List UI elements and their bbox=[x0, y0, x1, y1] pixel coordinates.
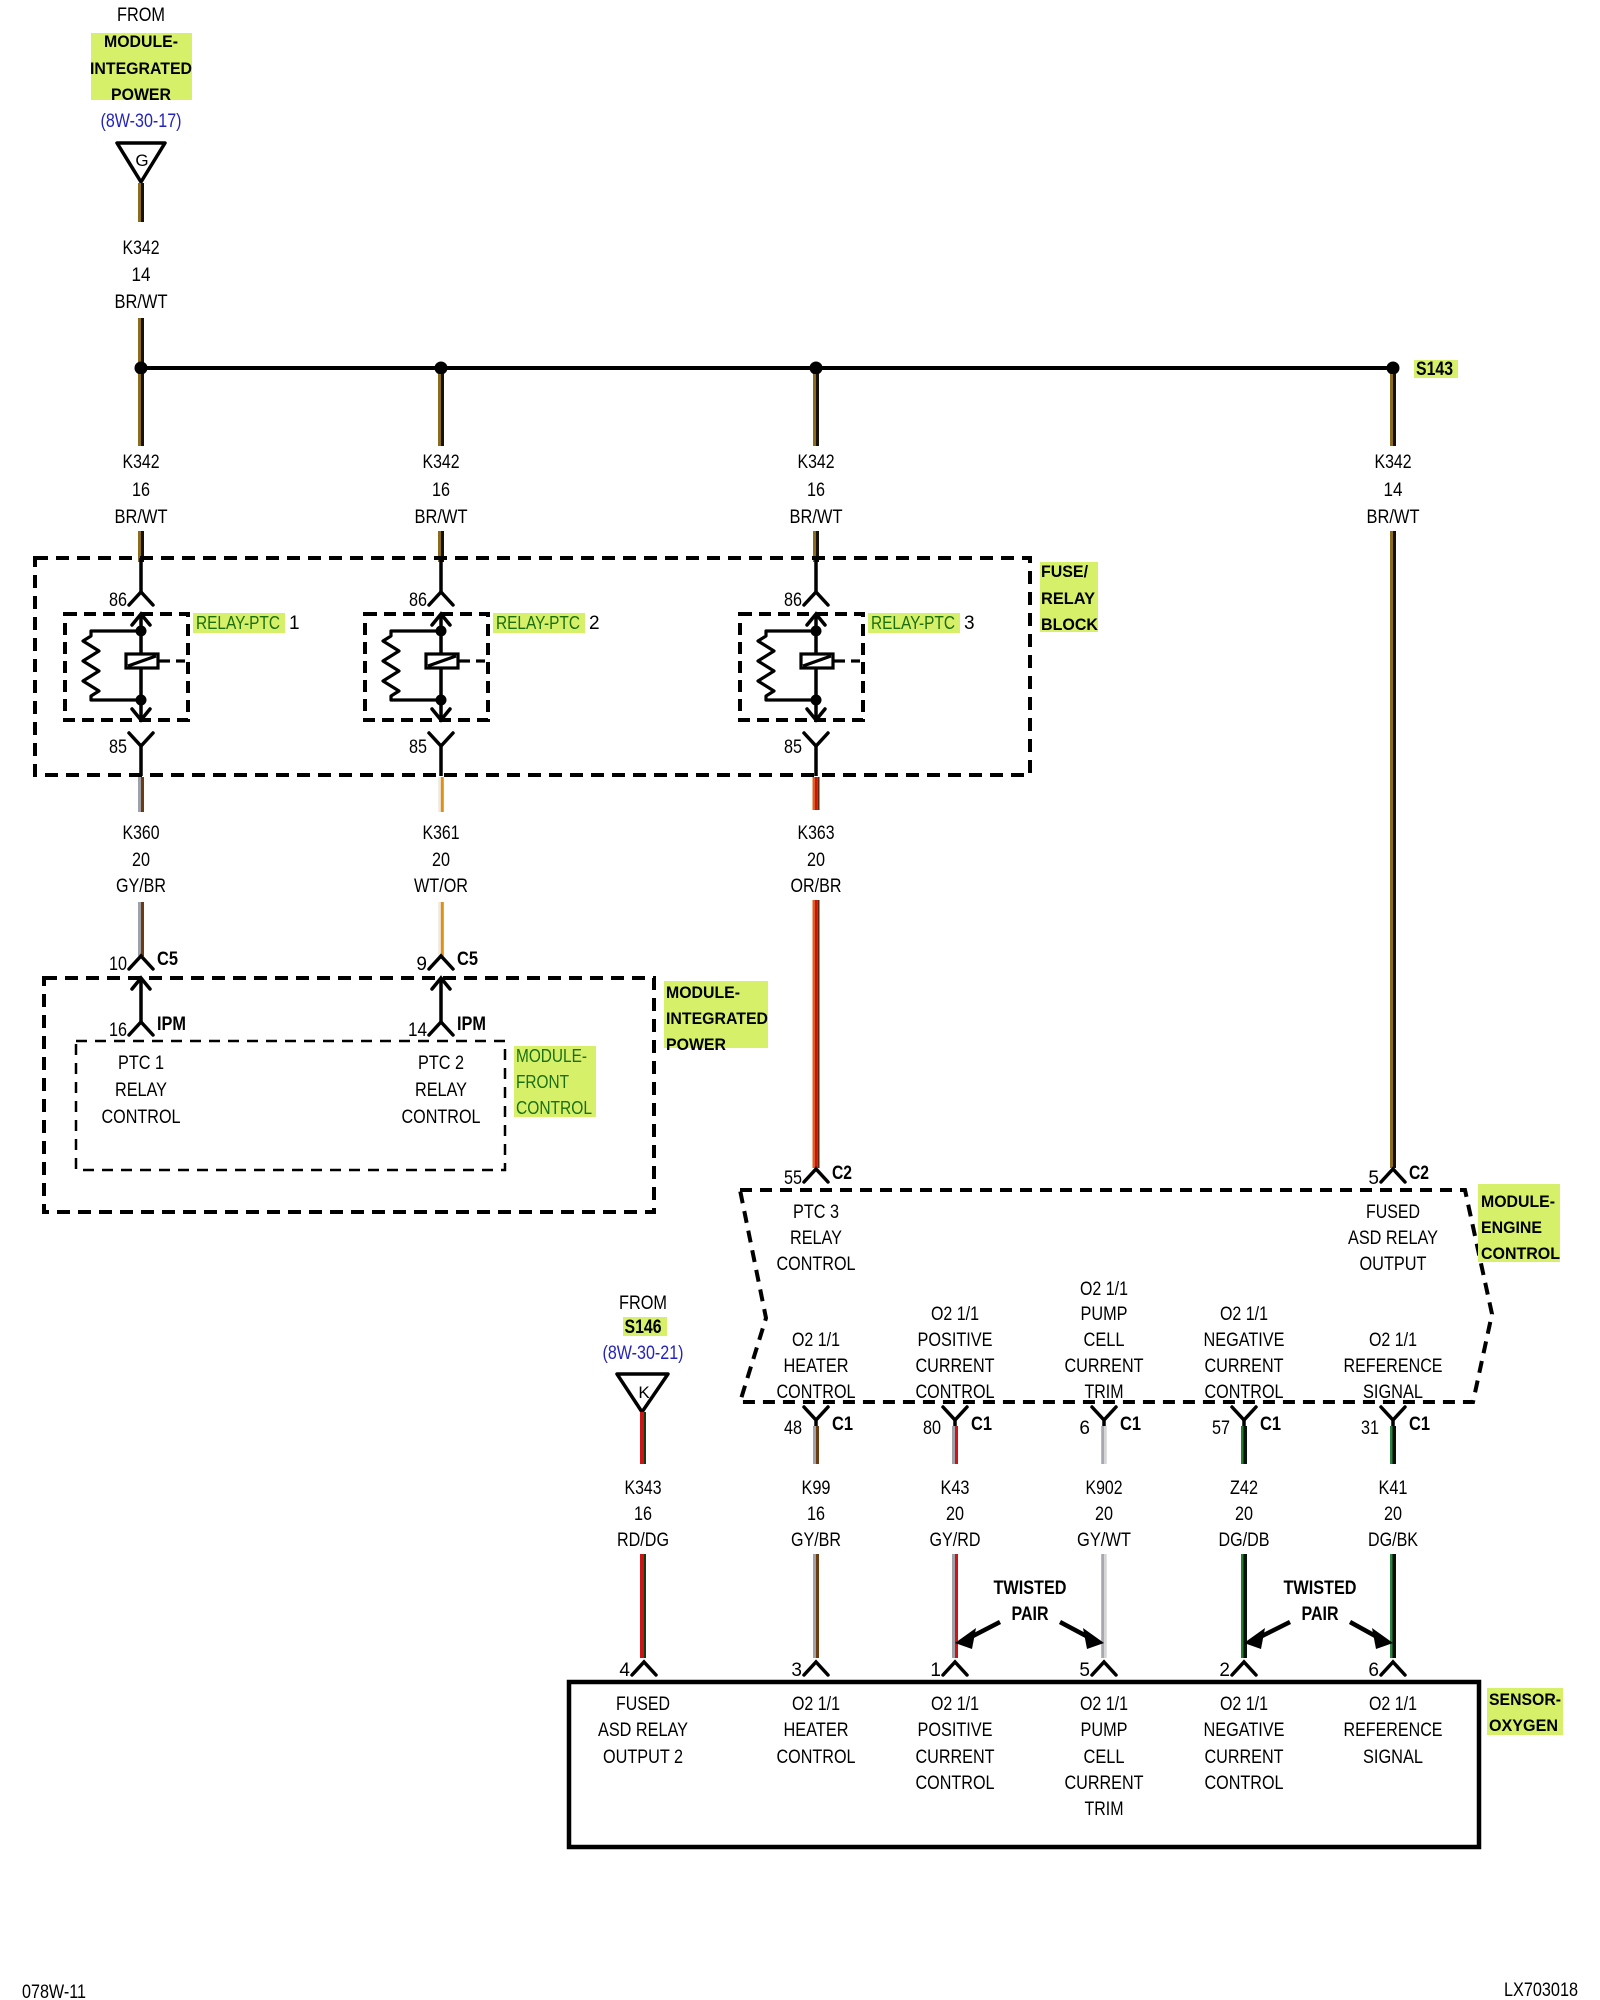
label Z42 20 DG/DB bbox=[1219, 1478, 1270, 1551]
label RELAY-PTC 3 bbox=[871, 613, 975, 634]
label 16 IPM bbox=[109, 1014, 186, 1041]
label 9 C5 bbox=[416, 949, 478, 975]
svg-text:CURRENT: CURRENT bbox=[916, 1356, 995, 1377]
svg-text:FUSED: FUSED bbox=[616, 1694, 670, 1715]
label 57 C1 bbox=[1212, 1414, 1281, 1439]
label O2 1/1 POSITIVE CURRENT CONTROL (sensor) bbox=[916, 1694, 995, 1794]
svg-text:S143: S143 bbox=[1416, 359, 1453, 380]
svg-text:REFERENCE: REFERENCE bbox=[1344, 1356, 1443, 1377]
label K342 16 BR/WT at x441 bbox=[415, 452, 468, 528]
svg-text:BR/WT: BR/WT bbox=[790, 507, 843, 528]
label K99 16 GY/BR bbox=[791, 1478, 841, 1551]
svg-text:GY/RD: GY/RD bbox=[930, 1530, 981, 1551]
svg-text:5: 5 bbox=[1368, 1168, 1379, 1189]
connector C1 pin 80 bbox=[943, 1407, 967, 1420]
wire K99 16 GY/BR upper bbox=[813, 1426, 819, 1464]
module-front control outline bbox=[76, 1041, 505, 1170]
svg-text:O2 1/1: O2 1/1 bbox=[1220, 1304, 1268, 1325]
wire K99 16 GY/BR lower bbox=[813, 1554, 819, 1658]
highlight module-engine control label bbox=[1478, 1184, 1560, 1262]
svg-text:INTEGRATED: INTEGRATED bbox=[666, 1009, 768, 1028]
svg-text:20: 20 bbox=[132, 850, 150, 871]
wire K41 20 DG/BK lower bbox=[1390, 1554, 1396, 1658]
svg-text:POSITIVE: POSITIVE bbox=[918, 1720, 993, 1741]
label 5 C2 bbox=[1368, 1163, 1429, 1189]
C1 pin 57 stem bbox=[1242, 1420, 1246, 1426]
C1 pin 80 stem bbox=[953, 1420, 957, 1426]
svg-text:PUMP: PUMP bbox=[1081, 1304, 1128, 1325]
label O2 1/1 NEGATIVE CURRENT CONTROL (module) bbox=[1204, 1304, 1285, 1403]
svg-text:CONTROL: CONTROL bbox=[516, 1098, 592, 1118]
svg-text:O2 1/1: O2 1/1 bbox=[792, 1694, 840, 1715]
module-engine control outline bbox=[740, 1190, 1492, 1402]
highlight relay-PTC 3 label bbox=[868, 613, 960, 633]
svg-text:LX703018: LX703018 bbox=[1504, 1980, 1578, 2000]
svg-text:80: 80 bbox=[923, 1418, 941, 1439]
svg-text:31: 31 bbox=[1361, 1418, 1379, 1439]
svg-text:K363: K363 bbox=[798, 823, 835, 844]
svg-text:K342: K342 bbox=[423, 452, 460, 473]
svg-text:55: 55 bbox=[784, 1168, 802, 1189]
svg-text:MODULE-: MODULE- bbox=[516, 1046, 587, 1066]
svg-text:20: 20 bbox=[946, 1504, 964, 1525]
svg-text:CONTROL: CONTROL bbox=[402, 1107, 481, 1128]
sensor connector pin 1 bbox=[943, 1662, 967, 1675]
svg-text:C2: C2 bbox=[1409, 1163, 1429, 1184]
svg-text:O2 1/1: O2 1/1 bbox=[1369, 1694, 1417, 1715]
svg-text:K43: K43 bbox=[941, 1478, 970, 1499]
C1 pin 31 stem bbox=[1391, 1420, 1395, 1426]
svg-text:TWISTED: TWISTED bbox=[994, 1578, 1067, 1599]
label 55 C2 bbox=[784, 1163, 852, 1189]
wire K361 20 WT/OR lower bbox=[438, 902, 444, 956]
svg-text:C5: C5 bbox=[457, 949, 478, 970]
wire K343 16 RD/DG upper bbox=[640, 1412, 646, 1464]
svg-text:ASD RELAY: ASD RELAY bbox=[598, 1720, 688, 1741]
wire out of relay 3 pin 85 bbox=[814, 746, 818, 776]
label MODULE-ENGINE CONTROL bbox=[1481, 1192, 1560, 1263]
connector C1 pin 6 bbox=[1092, 1407, 1116, 1420]
wire K360 20 GY/BR upper bbox=[138, 777, 144, 812]
svg-text:C1: C1 bbox=[1120, 1414, 1141, 1435]
wire K342 drop at x816 bbox=[813, 374, 819, 446]
splice junction 3 bbox=[810, 362, 823, 375]
wire K363 20 OR/BR upper bbox=[813, 777, 820, 810]
label K43 20 GY/RD bbox=[930, 1478, 981, 1551]
label 6 C1 bbox=[1079, 1414, 1141, 1439]
label FUSE/RELAY BLOCK bbox=[1041, 562, 1099, 634]
svg-text:NEGATIVE: NEGATIVE bbox=[1204, 1720, 1285, 1741]
label 31 C1 bbox=[1361, 1414, 1430, 1439]
highlight module-integrated power (top) bbox=[91, 33, 192, 100]
svg-text:O2 1/1: O2 1/1 bbox=[1080, 1279, 1128, 1300]
svg-text:CONTROL: CONTROL bbox=[916, 1382, 995, 1403]
label MODULE-INTEGRATED POWER (top) bbox=[90, 32, 192, 104]
svg-text:10: 10 bbox=[109, 954, 127, 975]
svg-text:TRIM: TRIM bbox=[1085, 1382, 1124, 1403]
svg-text:O2 1/1: O2 1/1 bbox=[931, 1304, 979, 1325]
svg-text:S146: S146 bbox=[625, 1317, 662, 1338]
relay 2 coil suppression resistor bbox=[383, 631, 441, 700]
label O2 1/1 HEATER CONTROL (sensor) bbox=[777, 1694, 856, 1768]
svg-text:CONTROL: CONTROL bbox=[777, 1747, 856, 1768]
svg-text:85: 85 bbox=[784, 737, 802, 758]
svg-text:5: 5 bbox=[1079, 1660, 1090, 1681]
svg-text:K41: K41 bbox=[1379, 1478, 1408, 1499]
svg-text:BR/WT: BR/WT bbox=[415, 507, 468, 528]
svg-text:ASD RELAY: ASD RELAY bbox=[1348, 1228, 1438, 1249]
wire Z42 20 DG/DB lower bbox=[1241, 1554, 1247, 1658]
svg-text:K: K bbox=[638, 1383, 650, 1402]
label O2 1/1 REFERENCE SIGNAL (module) bbox=[1344, 1330, 1443, 1403]
sensor connector pin 3 bbox=[804, 1662, 828, 1675]
svg-text:CURRENT: CURRENT bbox=[1205, 1747, 1284, 1768]
label RELAY-PTC 2 bbox=[496, 613, 600, 634]
label 48 C1 bbox=[784, 1414, 853, 1439]
relay 1 coil top lead bbox=[139, 631, 143, 654]
connector pin 86 relay 2 bbox=[429, 592, 453, 605]
wire K342 drop at x141 bbox=[138, 374, 144, 446]
connector pin 85 relay 2 bbox=[429, 733, 453, 746]
twisted pair annotation at x1030 bbox=[955, 1578, 1104, 1649]
svg-text:K99: K99 bbox=[802, 1478, 831, 1499]
svg-text:K343: K343 bbox=[625, 1478, 662, 1499]
sensor connector pin 5 bbox=[1092, 1662, 1116, 1675]
connector C5 pin 9 bbox=[429, 956, 453, 969]
svg-text:4: 4 bbox=[619, 1660, 630, 1681]
connector C2 pin 55 bbox=[804, 1169, 828, 1182]
connector C1 pin 31 bbox=[1381, 1407, 1405, 1420]
connector C2 pin 5 bbox=[1381, 1169, 1405, 1182]
relay 3 coil bottom lead bbox=[814, 668, 818, 700]
svg-text:PAIR: PAIR bbox=[1302, 1604, 1339, 1625]
label FUSED ASD RELAY OUTPUT 2 (sensor) bbox=[598, 1694, 688, 1768]
svg-text:CONTROL: CONTROL bbox=[916, 1773, 995, 1794]
relay 3 bottom junction bbox=[811, 695, 822, 706]
twisted pair annotation at x1320 bbox=[1244, 1578, 1393, 1649]
svg-text:TWISTED: TWISTED bbox=[1284, 1578, 1357, 1599]
relay-PTC 3 outline bbox=[740, 614, 863, 720]
splice S143 node bbox=[1387, 362, 1400, 375]
svg-text:BR/WT: BR/WT bbox=[115, 292, 168, 313]
svg-text:POWER: POWER bbox=[111, 85, 171, 104]
relay 2 pin85 arrow bbox=[432, 700, 450, 720]
svg-text:FROM: FROM bbox=[117, 5, 165, 26]
connector pin 86 relay 1 bbox=[129, 592, 153, 605]
svg-text:SIGNAL: SIGNAL bbox=[1363, 1747, 1423, 1768]
connector C1 pin 48 bbox=[804, 1407, 828, 1420]
svg-text:RELAY: RELAY bbox=[1041, 589, 1096, 608]
relay 3 pin85 arrow bbox=[807, 700, 825, 720]
svg-text:CONTROL: CONTROL bbox=[777, 1382, 856, 1403]
svg-text:85: 85 bbox=[109, 737, 127, 758]
relay 2 coil top lead bbox=[439, 631, 443, 654]
label MODULE-INTEGRATED POWER (right) bbox=[666, 983, 768, 1054]
svg-text:C1: C1 bbox=[832, 1414, 853, 1435]
svg-text:16: 16 bbox=[634, 1504, 652, 1525]
highlight relay-PTC 2 label bbox=[493, 613, 585, 633]
relay 3 top junction bbox=[811, 626, 822, 637]
svg-text:RELAY: RELAY bbox=[790, 1228, 842, 1249]
svg-text:1: 1 bbox=[930, 1660, 941, 1681]
relay 1 coil bbox=[126, 654, 185, 668]
label K41 20 DG/BK bbox=[1368, 1478, 1418, 1551]
C1 pin 6 stem bbox=[1102, 1420, 1106, 1426]
svg-text:RELAY: RELAY bbox=[415, 1080, 467, 1101]
highlight sensor-oxygen label bbox=[1487, 1688, 1563, 1735]
wire K342 drop at x1393 bbox=[1390, 374, 1396, 446]
relay 3 coil top lead bbox=[814, 631, 818, 654]
IPM internal arrow at x441 bbox=[432, 978, 450, 1022]
label PTC 2 RELAY CONTROL bbox=[402, 1053, 481, 1128]
svg-text:RELAY-PTC: RELAY-PTC bbox=[871, 613, 955, 633]
C1 pin 48 stem bbox=[814, 1420, 818, 1426]
svg-text:REFERENCE: REFERENCE bbox=[1344, 1720, 1443, 1741]
relay 2 top junction bbox=[436, 626, 447, 637]
svg-text:16: 16 bbox=[109, 1020, 127, 1041]
label 80 C1 bbox=[923, 1414, 992, 1439]
svg-text:K342: K342 bbox=[123, 452, 160, 473]
svg-text:C1: C1 bbox=[1409, 1414, 1430, 1435]
svg-text:POSITIVE: POSITIVE bbox=[918, 1330, 993, 1351]
svg-text:14: 14 bbox=[408, 1020, 427, 1041]
label O2 1/1 PUMP CELL CURRENT TRIM (module) bbox=[1065, 1279, 1144, 1403]
svg-text:MODULE-: MODULE- bbox=[1481, 1192, 1555, 1211]
svg-text:C5: C5 bbox=[157, 949, 178, 970]
label MODULE-FRONT CONTROL bbox=[516, 1046, 592, 1118]
relay 1 bottom junction bbox=[136, 695, 147, 706]
wire into relay 2 pin 86 bbox=[439, 558, 443, 592]
svg-text:FRONT: FRONT bbox=[516, 1072, 569, 1092]
wire K343 16 RD/DG lower bbox=[640, 1554, 646, 1658]
svg-text:86: 86 bbox=[109, 590, 127, 611]
svg-text:16: 16 bbox=[807, 480, 825, 501]
svg-text:K902: K902 bbox=[1086, 1478, 1123, 1499]
svg-text:OXYGEN: OXYGEN bbox=[1489, 1716, 1558, 1735]
connector pin 85 relay 1 bbox=[129, 733, 153, 746]
connector pin 85 relay 3 bbox=[804, 733, 828, 746]
svg-text:K360: K360 bbox=[123, 823, 160, 844]
highlight module-integrated power label bbox=[664, 981, 768, 1048]
highlight S146 bbox=[623, 1317, 667, 1336]
svg-text:(8W-30-21): (8W-30-21) bbox=[603, 1343, 684, 1364]
relay 2 pin86 arrow bbox=[432, 614, 450, 631]
connector C1 pin 57 bbox=[1232, 1407, 1256, 1420]
label O2 1/1 PUMP CELL CURRENT TRIM (sensor) bbox=[1065, 1694, 1144, 1820]
fuse/relay block outline bbox=[35, 558, 1030, 775]
svg-text:PTC 1: PTC 1 bbox=[118, 1053, 164, 1074]
relay 1 top junction bbox=[136, 626, 147, 637]
svg-text:PUMP: PUMP bbox=[1081, 1720, 1128, 1741]
svg-text:MODULE-: MODULE- bbox=[666, 983, 740, 1002]
relay 3 coil bbox=[801, 654, 860, 668]
wire out of relay 1 pin 85 bbox=[139, 746, 143, 776]
svg-text:1: 1 bbox=[289, 613, 300, 634]
svg-text:16: 16 bbox=[807, 1504, 825, 1525]
svg-text:BR/WT: BR/WT bbox=[115, 507, 168, 528]
svg-text:RELAY-PTC: RELAY-PTC bbox=[196, 613, 280, 633]
svg-text:ENGINE: ENGINE bbox=[1481, 1218, 1542, 1237]
label K342 16 BR/WT at x141 bbox=[115, 452, 168, 528]
relay 2 coil bottom lead bbox=[439, 668, 443, 700]
relay 1 pin85 arrow bbox=[132, 700, 150, 720]
svg-text:OUTPUT: OUTPUT bbox=[1360, 1254, 1427, 1275]
connector C5 pin 10 bbox=[129, 956, 153, 969]
off-page connector G bbox=[117, 143, 165, 182]
svg-text:K361: K361 bbox=[423, 823, 460, 844]
svg-text:CURRENT: CURRENT bbox=[1205, 1356, 1284, 1377]
wire K43 20 GY/RD lower bbox=[952, 1554, 958, 1658]
svg-text:C1: C1 bbox=[1260, 1414, 1281, 1435]
label PTC 1 RELAY CONTROL bbox=[102, 1053, 181, 1128]
svg-text:RELAY: RELAY bbox=[115, 1080, 167, 1101]
svg-text:DG/DB: DG/DB bbox=[1219, 1530, 1270, 1551]
highlight module-front control label bbox=[514, 1046, 596, 1117]
svg-text:O2 1/1: O2 1/1 bbox=[1080, 1694, 1128, 1715]
connector pin 86 relay 3 bbox=[804, 592, 828, 605]
wire K41 20 DG/BK upper bbox=[1390, 1426, 1396, 1464]
svg-text:O2 1/1: O2 1/1 bbox=[792, 1330, 840, 1351]
svg-text:SIGNAL: SIGNAL bbox=[1363, 1382, 1423, 1403]
svg-text:2: 2 bbox=[1219, 1660, 1230, 1681]
svg-text:FUSED: FUSED bbox=[1366, 1202, 1420, 1223]
svg-text:K342: K342 bbox=[798, 452, 835, 473]
wire K902 20 GY/WT upper bbox=[1101, 1426, 1107, 1464]
svg-text:2: 2 bbox=[589, 613, 600, 634]
svg-text:DG/BK: DG/BK bbox=[1368, 1530, 1418, 1551]
svg-text:OR/BR: OR/BR bbox=[791, 876, 842, 897]
wire K342 14 long drop to C2 pin 5 bbox=[1390, 531, 1396, 1168]
svg-text:CURRENT: CURRENT bbox=[916, 1747, 995, 1768]
svg-text:POWER: POWER bbox=[666, 1035, 726, 1054]
relay 3 pin86 arrow bbox=[807, 614, 825, 631]
svg-text:(8W-30-17): (8W-30-17) bbox=[101, 111, 182, 132]
svg-text:K342: K342 bbox=[1375, 452, 1412, 473]
label RELAY-PTC 1 bbox=[196, 613, 300, 634]
svg-text:O2 1/1: O2 1/1 bbox=[1369, 1330, 1417, 1351]
svg-text:16: 16 bbox=[132, 480, 150, 501]
wire into relay 1 pin 86 bbox=[139, 558, 143, 592]
svg-text:14: 14 bbox=[1384, 480, 1403, 501]
svg-text:HEATER: HEATER bbox=[784, 1720, 849, 1741]
svg-text:078W-11: 078W-11 bbox=[22, 1982, 86, 2000]
connector IPM pin 14 bbox=[429, 1022, 453, 1035]
splice junction 2 bbox=[435, 362, 448, 375]
relay 2 bottom junction bbox=[436, 695, 447, 706]
relay 2 coil bbox=[426, 654, 485, 668]
wire K342 to splice S143 bbox=[138, 318, 144, 364]
svg-text:GY/BR: GY/BR bbox=[791, 1530, 841, 1551]
svg-text:48: 48 bbox=[784, 1418, 802, 1439]
svg-text:20: 20 bbox=[807, 850, 825, 871]
svg-text:PAIR: PAIR bbox=[1012, 1604, 1049, 1625]
svg-text:PTC 3: PTC 3 bbox=[793, 1202, 839, 1223]
wire K342 into fuse block at x141 bbox=[138, 531, 144, 562]
svg-text:86: 86 bbox=[409, 590, 427, 611]
svg-text:CONTROL: CONTROL bbox=[1205, 1773, 1284, 1794]
label K361 20 WT/OR bbox=[414, 823, 468, 897]
label 10 C5 bbox=[109, 949, 178, 975]
relay 1 pin86 arrow bbox=[132, 614, 150, 631]
label O2 1/1 HEATER CONTROL (module) bbox=[777, 1330, 856, 1403]
svg-text:GY/WT: GY/WT bbox=[1077, 1530, 1131, 1551]
svg-text:C2: C2 bbox=[832, 1163, 852, 1184]
wire K43 20 GY/RD upper bbox=[952, 1426, 958, 1464]
svg-text:PTC 2: PTC 2 bbox=[418, 1053, 464, 1074]
svg-text:20: 20 bbox=[432, 850, 450, 871]
svg-text:CELL: CELL bbox=[1084, 1330, 1125, 1351]
off-page connector K bbox=[617, 1374, 668, 1412]
bus wire S143 bbox=[141, 366, 1393, 370]
wire Z42 20 DG/DB upper bbox=[1241, 1426, 1247, 1464]
wire K902 20 GY/WT lower bbox=[1101, 1554, 1107, 1658]
svg-text:3: 3 bbox=[791, 1660, 802, 1681]
label K363 20 OR/BR bbox=[791, 823, 842, 897]
wire K360 20 GY/BR lower bbox=[138, 902, 144, 956]
svg-text:GY/BR: GY/BR bbox=[116, 876, 166, 897]
svg-text:CONTROL: CONTROL bbox=[777, 1254, 856, 1275]
svg-text:FROM: FROM bbox=[619, 1293, 667, 1314]
svg-text:BLOCK: BLOCK bbox=[1041, 615, 1099, 634]
relay 1 coil suppression resistor bbox=[83, 631, 141, 700]
wire K361 20 WT/OR upper bbox=[438, 777, 444, 812]
svg-text:O2 1/1: O2 1/1 bbox=[1220, 1694, 1268, 1715]
label PTC 3 RELAY CONTROL (module) bbox=[777, 1202, 856, 1275]
label K902 20 GY/WT bbox=[1077, 1478, 1131, 1551]
svg-text:Z42: Z42 bbox=[1230, 1478, 1258, 1499]
svg-text:HEATER: HEATER bbox=[784, 1356, 849, 1377]
label 14 IPM bbox=[408, 1014, 486, 1041]
splice junction 1 bbox=[135, 362, 148, 375]
svg-text:16: 16 bbox=[432, 480, 450, 501]
connector IPM pin 16 bbox=[129, 1022, 153, 1035]
svg-text:CONTROL: CONTROL bbox=[1205, 1382, 1284, 1403]
svg-text:57: 57 bbox=[1212, 1418, 1230, 1439]
svg-text:WT/OR: WT/OR bbox=[414, 876, 468, 897]
svg-text:3: 3 bbox=[964, 613, 975, 634]
wire K342 into fuse block at x441 bbox=[438, 531, 444, 562]
svg-text:RELAY-PTC: RELAY-PTC bbox=[496, 613, 580, 633]
svg-text:CELL: CELL bbox=[1084, 1747, 1125, 1768]
label O2 1/1 REFERENCE SIGNAL (sensor) bbox=[1344, 1694, 1443, 1768]
sensor connector pin 4 bbox=[632, 1662, 656, 1675]
svg-text:20: 20 bbox=[1384, 1504, 1402, 1525]
sensor connector pin 2 bbox=[1232, 1662, 1256, 1675]
svg-text:TRIM: TRIM bbox=[1085, 1799, 1124, 1820]
relay-PTC 1 outline bbox=[65, 614, 188, 720]
wire K342 drop at x441 bbox=[438, 374, 444, 446]
wire K363 20 OR/BR long drop bbox=[813, 900, 820, 1168]
svg-text:BR/WT: BR/WT bbox=[1367, 507, 1420, 528]
relay 3 coil suppression resistor bbox=[758, 631, 816, 700]
highlight relay-PTC 1 label bbox=[193, 613, 285, 633]
svg-text:OUTPUT 2: OUTPUT 2 bbox=[603, 1747, 683, 1768]
svg-text:CURRENT: CURRENT bbox=[1065, 1356, 1144, 1377]
svg-text:IPM: IPM bbox=[457, 1014, 486, 1035]
label O2 1/1 NEGATIVE CURRENT CONTROL (sensor) bbox=[1204, 1694, 1285, 1794]
svg-text:20: 20 bbox=[1095, 1504, 1113, 1525]
svg-text:CONTROL: CONTROL bbox=[1481, 1244, 1560, 1263]
svg-text:FUSE/: FUSE/ bbox=[1041, 562, 1088, 581]
sensor connector pin 6 bbox=[1381, 1662, 1405, 1675]
label K342 14 BR/WT (top) bbox=[115, 238, 168, 313]
svg-text:6: 6 bbox=[1368, 1660, 1379, 1681]
wire into relay 3 pin 86 bbox=[814, 558, 818, 592]
svg-text:CONTROL: CONTROL bbox=[102, 1107, 181, 1128]
svg-text:86: 86 bbox=[784, 590, 802, 611]
svg-text:RD/DG: RD/DG bbox=[617, 1530, 669, 1551]
svg-text:CURRENT: CURRENT bbox=[1065, 1773, 1144, 1794]
